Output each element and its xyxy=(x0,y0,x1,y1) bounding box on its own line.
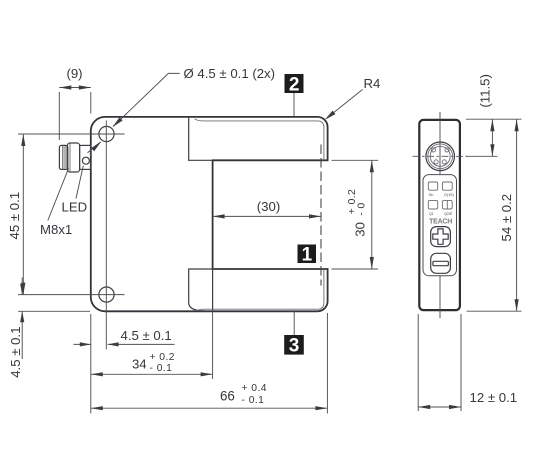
svg-text:On: On xyxy=(429,193,434,197)
indicator square D xyxy=(442,182,452,190)
svg-text:R4: R4 xyxy=(364,76,381,91)
M8 thread shading xyxy=(63,146,67,169)
dim (30) line xyxy=(213,215,321,217)
slot left edge continuation to bottom face xyxy=(212,269,214,311)
svg-text:12 ± 0.1: 12 ± 0.1 xyxy=(470,390,518,405)
LED leader xyxy=(76,166,83,199)
side view vertical centerline xyxy=(439,112,441,318)
svg-text:(30): (30) xyxy=(257,199,280,214)
FRONT-VIEW-GROUP xyxy=(18,117,328,350)
connector pin 4 xyxy=(442,160,446,164)
SIDE-VIEW-GROUP xyxy=(413,112,468,318)
marker square 3 xyxy=(284,335,304,355)
M8 collar inner line xyxy=(69,143,71,171)
svg-text:4.5 ± 0.1: 4.5 ± 0.1 xyxy=(121,328,172,343)
dim 54 text xyxy=(499,194,514,242)
dim 4.5 vertical xyxy=(21,278,23,360)
hole vertical centerline xyxy=(105,121,107,350)
svg-text:34: 34 xyxy=(132,356,147,371)
hole diameter leader xyxy=(88,73,180,152)
connector pin 1 xyxy=(431,148,435,152)
dim 54 line xyxy=(516,119,518,311)
dim 4.5 vertical text xyxy=(8,327,23,378)
LED indicator circle xyxy=(82,157,89,164)
svg-text:54 ± 0.2: 54 ± 0.2 xyxy=(499,194,514,242)
svg-text:+ 0.4: + 0.4 xyxy=(242,383,267,394)
mounting hole top xyxy=(99,126,114,141)
marker square 3 leader xyxy=(293,311,295,335)
M8-CONNECTOR-GROUP xyxy=(59,143,90,172)
svg-text:TEACH: TEACH xyxy=(429,218,452,225)
front view fork body outline xyxy=(91,117,328,311)
top arm inner edge line xyxy=(195,119,324,161)
M8 body stub xyxy=(80,145,91,169)
dim 30 tol line xyxy=(371,160,373,269)
svg-text:3: 3 xyxy=(289,336,300,357)
indicator square On xyxy=(428,182,437,190)
optical axis dashed line xyxy=(320,145,322,286)
connector center extension xyxy=(466,155,498,157)
dim 66 extensions xyxy=(91,313,328,414)
svg-text:66: 66 xyxy=(220,389,235,404)
svg-text:M8x1: M8x1 xyxy=(40,222,72,237)
dim (11.5) line xyxy=(491,119,493,156)
svg-text:Q1: Q1 xyxy=(429,212,434,216)
connector pin 2 xyxy=(445,148,449,152)
M8 thread cylinder xyxy=(59,145,67,169)
mounting hole bottom xyxy=(99,287,114,302)
svg-text:4.5 ± 0.1: 4.5 ± 0.1 xyxy=(8,327,23,378)
indicator square Q1 xyxy=(428,200,437,209)
svg-text:45 ± 0.1: 45 ± 0.1 xyxy=(7,192,22,240)
connector horizontal centerline xyxy=(413,155,468,157)
dim 30 tol text xyxy=(347,189,368,237)
connector outer ring xyxy=(426,142,455,171)
dim (9) extension lines xyxy=(59,92,91,140)
dim 12 line xyxy=(418,406,461,408)
svg-text:Ø 4.5 ± 0.1 (2x): Ø 4.5 ± 0.1 (2x) xyxy=(184,66,276,81)
dim 4.5 horizontal xyxy=(74,343,175,345)
svg-text:LED: LED xyxy=(62,200,88,215)
top extension line xyxy=(466,118,522,120)
dim 45 line xyxy=(22,134,24,295)
DIMENSIONS-FRONT xyxy=(7,66,381,414)
svg-text:D(1S): D(1S) xyxy=(444,193,453,197)
control panel outline xyxy=(423,175,457,276)
dim 30 tol extensions xyxy=(332,160,379,269)
marker square 2 leader xyxy=(293,93,295,116)
svg-text:+ 0.2: + 0.2 xyxy=(150,352,175,363)
svg-text:Q2/E: Q2/E xyxy=(444,212,453,216)
front face step line (top) xyxy=(189,117,213,160)
svg-text:- 0.1: - 0.1 xyxy=(150,363,173,374)
indicator square Q2 split xyxy=(442,200,452,209)
M8 thread line xyxy=(62,146,64,170)
marker square 2 xyxy=(285,74,304,93)
connector pin 3 xyxy=(434,160,438,164)
dim (11.5) text xyxy=(478,74,493,107)
M8 collar nut xyxy=(67,143,79,172)
svg-text:1: 1 xyxy=(302,245,313,266)
hole bottom horizontal centerline xyxy=(18,294,125,296)
svg-text:(11.5): (11.5) xyxy=(478,74,493,107)
dim 34 line xyxy=(91,373,213,375)
dim 45 text xyxy=(7,192,22,240)
teach plus button xyxy=(431,227,451,247)
M8x1 leader xyxy=(48,168,69,220)
dim 12 extensions xyxy=(418,314,461,411)
svg-text:30: 30 xyxy=(353,222,368,237)
dim 66 line xyxy=(91,407,328,409)
bottom extension xyxy=(467,310,522,312)
front face step line (bottom, with taper) xyxy=(189,269,213,311)
dim (9) line xyxy=(59,87,91,89)
side view body outline xyxy=(419,120,460,310)
svg-text:(9): (9) xyxy=(66,66,82,81)
svg-text:2: 2 xyxy=(289,74,300,95)
teach minus button xyxy=(431,253,451,273)
svg-text:- 0: - 0 xyxy=(357,202,368,215)
bottom arm inner edge line xyxy=(196,269,324,311)
hole top horizontal centerline xyxy=(18,133,125,135)
connector middle ring xyxy=(428,144,453,169)
R4 leader xyxy=(331,90,363,115)
connector inner circle xyxy=(430,146,450,166)
marker square 1 xyxy=(298,245,317,264)
svg-text:- 0.1: - 0.1 xyxy=(242,395,265,406)
dim 34 extension xyxy=(212,311,214,379)
DIMENSIONS-SIDE xyxy=(418,74,521,411)
